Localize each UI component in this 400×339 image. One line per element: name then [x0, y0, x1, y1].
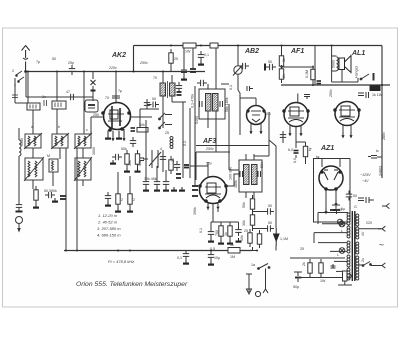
IF transformer 1: [199, 84, 225, 119]
svg-text:2x: 2x: [361, 258, 365, 262]
electrolytic 50u: [293, 272, 302, 289]
dark cap bars below osc: [177, 92, 182, 95]
svg-text:0,1-470k: 0,1-470k: [191, 94, 195, 108]
resistor in loop bottom: [338, 271, 352, 285]
primary winding 2: [347, 226, 350, 238]
padder cap box 1: [27, 72, 47, 135]
phone jack circle: [255, 291, 260, 296]
svg-text:50v: 50v: [206, 162, 212, 166]
coil box row1 c: [74, 133, 92, 149]
svg-text:25: 25: [244, 229, 248, 233]
svg-text:0,1: 0,1: [204, 53, 209, 57]
tube AK2 bottom leads: [108, 129, 124, 135]
IF1 cap right: [220, 101, 223, 107]
trimmer cluster right of AK2: [143, 150, 163, 172]
svg-text:6,0: 6,0: [288, 148, 293, 152]
secondary winding 1: [356, 214, 359, 226]
caps row y183: [143, 178, 149, 188]
svg-text:1W: 1W: [320, 279, 326, 283]
svg-text:c: c: [86, 128, 88, 132]
svg-text:4V: 4V: [361, 231, 365, 236]
wire: right rail lower stub: [381, 170, 383, 178]
svg-text:Ft = 478,8 kHz: Ft = 478,8 kHz: [108, 259, 134, 264]
cap: [45, 192, 55, 198]
dark bar: [264, 64, 266, 71]
AL1 box left edge: [314, 46, 316, 86]
extra tiny value labels: [36, 57, 365, 262]
cap on y97 wire: [67, 94, 77, 100]
electrolytic bar: [16, 211, 23, 213]
svg-text:50: 50: [152, 97, 156, 101]
svg-text:1,1M: 1,1M: [280, 237, 288, 241]
resistor: [319, 259, 323, 277]
svg-text:70: 70: [105, 96, 109, 100]
resistor on top bus x171: [169, 49, 173, 67]
cap left of box: [131, 128, 136, 131]
cap at 141,160: [140, 158, 145, 161]
resistor: [135, 150, 139, 168]
resistor bottom left: [34, 186, 38, 204]
svg-text:60: 60: [338, 208, 342, 212]
svg-text:G: G: [354, 205, 357, 209]
misc small value labels: [20, 58, 372, 236]
svg-text:0000: 0000: [20, 138, 24, 146]
dark cap square: [184, 165, 189, 168]
heater arrow AF3: [216, 204, 219, 210]
cap left of junction: [266, 64, 276, 70]
svg-text:280v: 280v: [382, 132, 386, 140]
band switch contacts left: [12, 69, 24, 87]
tube AZ1: [319, 166, 343, 190]
svg-text:180k: 180k: [234, 180, 238, 188]
svg-text:0,1M: 0,1M: [305, 70, 309, 78]
left contact column: [12, 78, 27, 103]
wire x281 top: [281, 46, 283, 53]
antenna: [22, 46, 30, 73]
svg-text:5493: 5493: [195, 116, 199, 124]
IF transformer 2: [239, 154, 262, 198]
antenna coil on x19: [19, 128, 21, 203]
svg-text:AZ1: AZ1: [320, 145, 334, 152]
svg-text:AK2: AK2: [111, 52, 126, 59]
cap top left of IF1: [197, 80, 207, 86]
cap right of box: [130, 137, 136, 147]
wires AB2 to IF2: [229, 135, 269, 170]
IF2 cap left: [240, 171, 243, 177]
wire osc area: [140, 102, 186, 128]
tube AK2: [102, 103, 131, 132]
svg-text:250v: 250v: [139, 61, 148, 65]
dial lamp 1: [339, 221, 345, 227]
svg-text:25p: 25p: [68, 61, 74, 65]
svg-text:2k: 2k: [282, 74, 286, 78]
heater arrow AK2: [111, 135, 114, 141]
power transformer core: [352, 211, 355, 281]
heater arrow AB2: [259, 128, 262, 134]
cap: [235, 226, 241, 236]
IF1 wires down: [208, 84, 229, 170]
wire: right B+ rail x382: [381, 46, 383, 171]
svg-text:50k: 50k: [139, 123, 145, 127]
cap: [264, 225, 274, 231]
dial lamp 2: [339, 248, 345, 254]
secondary winding 2: [356, 227, 359, 239]
junction dots on buses: [27, 45, 383, 252]
ground bars under trimmers: [171, 187, 177, 191]
AF1 resistor 2: [279, 65, 283, 83]
svg-text:7μ: 7μ: [36, 60, 40, 64]
series choke on top bus: [183, 43, 218, 48]
transformer left connections: [314, 213, 348, 272]
ground: [33, 204, 39, 208]
mains plug 2: [378, 263, 385, 268]
AK2 top cap wire: [112, 72, 120, 104]
ground: [105, 202, 111, 206]
primary winding top: [347, 213, 350, 225]
wire from series box to IF1: [215, 48, 217, 84]
ground terminal plug: [382, 203, 389, 208]
svg-text:0,1: 0,1: [229, 85, 233, 90]
svg-text:1M: 1M: [230, 255, 235, 259]
caps above AL1: [358, 92, 369, 98]
svg-text:1k: 1k: [224, 232, 228, 236]
svg-text:30k: 30k: [242, 220, 246, 226]
svg-text:0,5: 0,5: [210, 247, 215, 251]
secondary winding 4: [356, 256, 359, 268]
resistor x171 mid: [169, 156, 173, 174]
mains switch: [362, 262, 371, 267]
cap below AZ1: [333, 209, 340, 211]
wire resistor x171 to bus: [170, 67, 172, 72]
small cap near AB2 grid: [247, 86, 253, 91]
heater arrow AF3: [206, 204, 209, 210]
ground: [208, 261, 214, 265]
cap from top bus down x183: [181, 48, 193, 76]
svg-text:∼: ∼: [378, 242, 384, 249]
padder cap box 3: [85, 100, 98, 112]
svg-text:a: a: [31, 125, 33, 129]
small dark cap: [317, 81, 322, 84]
svg-text:tc: tc: [376, 149, 379, 153]
transformer right connections: [359, 229, 381, 266]
tone switch: [358, 73, 374, 82]
svg-text:390k: 390k: [193, 207, 197, 215]
primary winding 4: [347, 255, 350, 267]
middle coil: [49, 159, 58, 172]
svg-text:3. 207-580 m: 3. 207-580 m: [97, 226, 121, 231]
IF1 cap left: [200, 101, 203, 107]
wire y258 right: [290, 257, 345, 259]
pickup jack circle: [16, 217, 23, 233]
svg-text:70: 70: [153, 76, 157, 80]
svg-text:30k: 30k: [128, 160, 132, 166]
coil box row1 a: [24, 133, 42, 149]
wires: [283, 132, 306, 164]
wire: right mid bus: [281, 84, 390, 86]
AF1 resistor 1: [279, 52, 283, 70]
switch contact pair right of AK2: [159, 113, 172, 129]
svg-text:250v: 250v: [329, 89, 333, 97]
heater arrow AZ1: [324, 208, 327, 214]
vertical x195: [194, 86, 196, 185]
small coil x171.5: [170, 137, 173, 149]
heater arrow AB2: [249, 128, 252, 134]
ground under AK2: [116, 135, 122, 139]
wire: 220V bus: [26, 71, 205, 73]
dark bars x178: [176, 174, 181, 178]
svg-text:58k: 58k: [260, 162, 264, 168]
svg-text:1k: 1k: [282, 58, 286, 62]
screen resistor box: [137, 128, 148, 133]
AZ1 enclosure box: [314, 159, 351, 223]
resistor 2: [128, 190, 132, 208]
dark bar cap x193: [190, 69, 196, 72]
svg-text:34803: 34803: [379, 166, 383, 176]
caps left of resistor loop: [331, 264, 336, 268]
output transformer winding: [332, 46, 339, 83]
IF2 cap right: [258, 171, 261, 177]
svg-text:7μ: 7μ: [118, 89, 122, 93]
svg-text:50: 50: [353, 194, 357, 198]
tube AF1: [283, 103, 309, 127]
svg-text:220v: 220v: [108, 66, 117, 70]
wires from coil boxes down: [33, 148, 83, 251]
svg-text:0,1: 0,1: [177, 256, 182, 260]
ground x201: [198, 61, 204, 65]
svg-text:50: 50: [268, 221, 272, 225]
primary winding 3: [347, 241, 350, 253]
ground: [115, 208, 121, 212]
ground: [52, 198, 58, 202]
caps on x19: [16, 201, 22, 211]
cap pair left of AF1 res: [239, 63, 249, 69]
svg-text:1W: 1W: [185, 50, 191, 54]
wire: vertical x152: [133, 46, 135, 72]
heater arrow AL1: [349, 132, 352, 138]
dark triode symbol (detector diode): [274, 228, 280, 246]
svg-text:Hangsz: Hangsz: [355, 66, 359, 78]
ground row under caps y188: [143, 187, 149, 191]
ground: [227, 240, 233, 244]
svg-text:1. 12-20 m: 1. 12-20 m: [98, 213, 118, 218]
dark cap: [60, 196, 66, 199]
cap right bottom: [368, 149, 382, 158]
AB2 leads: [251, 112, 269, 135]
cathode cluster under AF3: cap: [208, 228, 214, 238]
svg-text:6,0: 6,0: [293, 158, 297, 163]
svg-text:50k: 50k: [242, 202, 246, 208]
divider chain right of IF2: resistor 1: [250, 195, 254, 213]
resistor: [219, 222, 223, 240]
padder cap box 2: [52, 72, 91, 135]
wires cathode cluster: [211, 222, 239, 228]
AL1 leads: [343, 125, 351, 133]
svg-text:0,1: 0,1: [183, 141, 187, 146]
ground: [154, 187, 160, 191]
cap pair left: [112, 154, 122, 160]
heater arrow AZ1: [334, 200, 337, 206]
bottom middle resistor cluster: resistor: [248, 229, 252, 247]
svg-text:50k: 50k: [121, 147, 127, 151]
svg-text:25: 25: [300, 247, 304, 251]
coil box row2 b: [74, 157, 92, 181]
svg-text:0,1: 0,1: [199, 228, 203, 233]
AVC resistor pair: resistor 1: [116, 190, 120, 208]
svg-text:50: 50: [52, 57, 56, 61]
ground: [127, 208, 133, 212]
tube AF3: [199, 177, 227, 204]
cap at 108: [105, 192, 111, 202]
svg-text:Orion 555. Telefunken Meisters: Orion 555. Telefunken Meisterszuper: [76, 281, 188, 288]
ground: [124, 168, 130, 172]
ground x184: [181, 76, 187, 80]
cap x177: [174, 161, 180, 171]
svg-text:4: 4: [160, 147, 162, 151]
grounds: [208, 238, 214, 242]
grid capacitor AK2: [147, 99, 159, 108]
svg-text:2. 40-52 m: 2. 40-52 m: [97, 220, 118, 225]
tuning trimmer circle: [233, 46, 243, 98]
cap: [154, 178, 160, 188]
ground: [163, 187, 169, 191]
electrolytic 10u: [208, 251, 214, 261]
mains plug 1: [378, 226, 385, 231]
series resistor on bus: [228, 248, 240, 254]
secondary winding 3: [356, 242, 359, 254]
svg-text:AF3: AF3: [202, 138, 216, 145]
heater arrow AF1: [299, 130, 302, 136]
tube AL1: [334, 102, 360, 126]
svg-text:2k: 2k: [171, 158, 175, 162]
svg-text:5000: 5000: [332, 60, 336, 68]
wire: bottom chassis bus: [64, 250, 252, 252]
svg-text:~125V: ~125V: [360, 173, 371, 177]
resistor to AZ1 area: [257, 230, 261, 248]
secondary winding 5: [356, 268, 359, 280]
ground: [183, 260, 189, 264]
svg-text:1k: 1k: [230, 243, 234, 247]
AZ1 leads: [322, 159, 340, 209]
svg-text:220: 220: [366, 221, 372, 225]
svg-text:2: 2: [133, 198, 135, 202]
primary winding 5: [347, 268, 350, 280]
svg-text:250v: 250v: [205, 147, 214, 151]
svg-text:25: 25: [174, 57, 178, 61]
svg-text:10k: 10k: [240, 235, 244, 241]
wire AF3 plate to IF2: [227, 174, 239, 186]
second antenna wire y97: [26, 72, 93, 102]
wire AB2 to detector diode: [269, 140, 276, 251]
mains fork: [263, 285, 268, 293]
cap 0,1u on bottom bus: [183, 250, 189, 260]
cap right of AZ1: [346, 191, 352, 201]
svg-text:AL1: AL1: [351, 50, 365, 57]
svg-text:3x: 3x: [42, 95, 46, 99]
svg-text:1k 1W: 1k 1W: [372, 93, 383, 97]
ground: [236, 238, 242, 242]
ground: [135, 168, 141, 172]
speaker bottom wire: [332, 70, 358, 83]
resistor 2: [250, 211, 254, 229]
cap x163: [160, 153, 166, 163]
svg-text:b: b: [58, 125, 60, 129]
wire: AK2 to osc transformer: [130, 116, 153, 118]
svg-text:25: 25: [165, 131, 169, 135]
ground under AK2: [105, 135, 111, 139]
resistor: [303, 143, 307, 161]
AF1 grid caps above: [298, 94, 310, 103]
chain wires: [253, 195, 267, 251]
long verticals bundle left of AF3: [146, 102, 190, 180]
svg-text:AB2: AB2: [244, 48, 259, 55]
plate resistor row under AK2: resistor: [125, 150, 129, 168]
AF3 cathode leads: [208, 204, 218, 223]
ground: [110, 160, 116, 164]
svg-text:10μ: 10μ: [214, 256, 220, 260]
wire: top B+ bus: [134, 45, 383, 47]
svg-text:1a: 1a: [251, 263, 255, 267]
svg-text:M: M: [47, 154, 50, 158]
svg-text:~4V: ~4V: [362, 179, 369, 183]
junction wire right: [282, 67, 314, 85]
coil box row1 b: [51, 133, 69, 149]
caps mid right: [280, 131, 286, 141]
caps near osc: [176, 82, 182, 92]
wire: AK2 left to band switch: [91, 116, 103, 118]
AF3 top grid wires: [190, 146, 269, 181]
svg-text:700: 700: [215, 230, 219, 236]
speaker: [339, 56, 351, 73]
AF1 leads: [290, 125, 301, 142]
svg-text:4. 686-150 m: 4. 686-150 m: [97, 233, 121, 238]
heater arrow AL1: [341, 132, 344, 138]
resistor pair near transformer: [308, 259, 312, 277]
svg-text:50 390k: 50 390k: [44, 189, 57, 193]
svg-text:0,1: 0,1: [266, 112, 271, 116]
svg-text:250: 250: [93, 113, 99, 117]
svg-text:2k: 2k: [302, 262, 306, 266]
heater arrow AK2: [122, 135, 125, 141]
electrolytic top: [330, 209, 336, 211]
svg-text:50: 50: [268, 60, 272, 64]
wire y277 right: [298, 277, 344, 279]
resistor x313: [311, 66, 315, 84]
svg-text:L: L: [337, 253, 339, 257]
switch bowtie x93: [91, 80, 96, 91]
dial lamp plug bottom: [246, 274, 252, 294]
ground: [218, 240, 224, 244]
wire AB2 top: [240, 98, 256, 135]
svg-text:2: 2: [121, 198, 123, 202]
svg-text:0,1: 0,1: [138, 161, 142, 166]
svg-text:3000: 3000: [92, 147, 96, 155]
cap: [163, 178, 169, 188]
dark blobs bottom x195: [192, 186, 198, 196]
svg-text:2: 2: [12, 69, 14, 73]
svg-text:50: 50: [268, 204, 272, 208]
svg-text:47: 47: [66, 90, 70, 94]
svg-text:100-360: 100-360: [229, 167, 233, 180]
svg-text:AF1: AF1: [290, 48, 304, 55]
ground: [179, 187, 185, 191]
heater arrow AF1: [288, 130, 291, 136]
fuse circle at AZ1 box bottom: [337, 219, 342, 224]
svg-text:58k 180k: 58k 180k: [225, 97, 229, 112]
power switch: [251, 251, 270, 289]
dark resistor 1k on bus: [370, 86, 380, 91]
svg-text:50μ: 50μ: [293, 285, 299, 289]
coil box row2 a: [24, 157, 44, 181]
